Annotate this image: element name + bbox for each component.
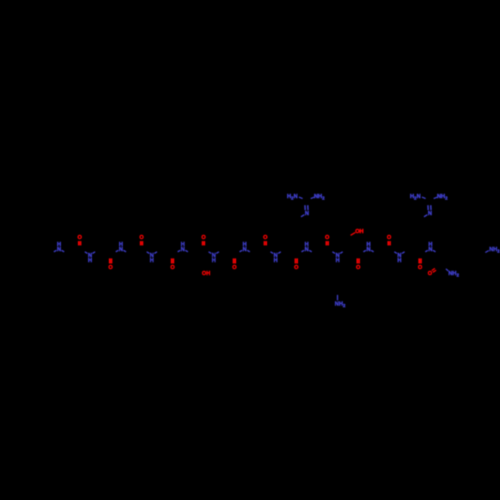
right lysine NH2 half-bond <box>485 251 489 253</box>
N13 half-bond left <box>425 250 428 252</box>
svg-text:N: N <box>274 253 278 259</box>
svg-text:O: O <box>139 235 144 241</box>
N10 half-bond right <box>340 252 343 254</box>
svg-text:N: N <box>366 247 370 253</box>
svg-text:O: O <box>418 265 423 271</box>
N6 half-bond left <box>209 252 212 254</box>
N1 half-bond left <box>54 250 57 252</box>
svg-text:N: N <box>212 253 216 259</box>
N5 half-bond left <box>178 250 181 252</box>
svg-text:NH2: NH2 <box>448 271 459 278</box>
svg-text:NH2: NH2 <box>437 194 448 201</box>
svg-text:O: O <box>108 265 113 271</box>
svg-text:N: N <box>305 247 309 253</box>
N2 half-bond right <box>92 252 95 254</box>
arginine 2 N-CH2 half-bond <box>424 215 427 217</box>
arginine 1 N-CH2 half-bond <box>301 215 304 217</box>
threonine OH half-bond <box>351 233 356 236</box>
lysine NH2 half-bond <box>337 295 339 300</box>
N5 half-bond right <box>185 250 188 252</box>
svg-text:H: H <box>212 258 216 264</box>
N11 half-bond left <box>363 250 366 252</box>
N7 half-bond right <box>247 250 250 252</box>
svg-text:H: H <box>397 258 401 264</box>
arginine 1 C=N double bond (half) <box>304 205 306 210</box>
svg-text:NH2: NH2 <box>314 194 325 201</box>
N12 half-bond left <box>394 252 397 254</box>
svg-text:N: N <box>305 211 309 217</box>
svg-text:O: O <box>170 265 175 271</box>
svg-text:O: O <box>294 265 299 271</box>
svg-text:O: O <box>263 235 268 241</box>
svg-text:N: N <box>150 253 154 259</box>
svg-text:H2N: H2N <box>410 194 421 201</box>
svg-text:O: O <box>78 235 83 241</box>
svg-text:NH2: NH2 <box>489 247 500 254</box>
svg-text:OH: OH <box>202 271 210 277</box>
svg-text:H: H <box>274 258 278 264</box>
svg-text:N: N <box>119 247 123 253</box>
svg-text:O: O <box>201 235 206 241</box>
svg-text:N: N <box>88 253 92 259</box>
svg-text:O: O <box>325 235 330 241</box>
svg-text:N: N <box>336 253 340 259</box>
svg-text:H: H <box>150 258 154 264</box>
arginine 1 NH2-C half-bond <box>311 197 315 198</box>
N12 half-bond right <box>402 252 405 254</box>
svg-text:NH2: NH2 <box>335 302 346 309</box>
N3 half-bond right <box>123 250 126 252</box>
N11 half-bond right <box>371 250 374 252</box>
N9 half-bond right <box>309 250 312 252</box>
N10 half-bond left <box>332 252 335 254</box>
svg-text:N: N <box>428 211 432 217</box>
svg-text:H2N: H2N <box>287 194 298 201</box>
N4 half-bond left <box>147 252 150 254</box>
N7 half-bond left <box>240 250 243 252</box>
svg-text:N: N <box>428 247 432 253</box>
N9 half-bond left <box>301 250 304 252</box>
arginine 2 H2N-C half-bond <box>422 197 426 199</box>
arginine 2 NH2-C half-bond <box>434 197 438 198</box>
svg-text:N: N <box>243 247 247 253</box>
N3 half-bond left <box>116 250 119 252</box>
svg-text:O: O <box>387 235 392 241</box>
svg-text:N: N <box>181 247 185 253</box>
svg-text:N: N <box>397 253 401 259</box>
svg-text:O: O <box>428 271 433 277</box>
svg-text:O: O <box>232 265 237 271</box>
N13 half-bond right <box>433 250 436 252</box>
svg-text:N: N <box>57 247 61 253</box>
svg-text:H: H <box>336 258 340 264</box>
arginine 1 H2N-C half-bond <box>299 197 303 199</box>
N1 half-bond right <box>62 250 65 252</box>
N2 half-bond left <box>85 252 88 254</box>
N8 half-bond left <box>270 252 273 254</box>
N8 half-bond right <box>278 252 281 254</box>
C-terminal amide C-N half-bond <box>446 269 448 271</box>
C-terminal C=O double bond (half) <box>432 268 435 270</box>
svg-text:O: O <box>356 265 361 271</box>
arginine 2 C=N double bond (half) <box>427 205 429 210</box>
N6 half-bond right <box>216 252 219 254</box>
svg-text:H: H <box>88 258 92 264</box>
svg-text:OH: OH <box>355 229 363 235</box>
N4 half-bond right <box>154 252 157 254</box>
